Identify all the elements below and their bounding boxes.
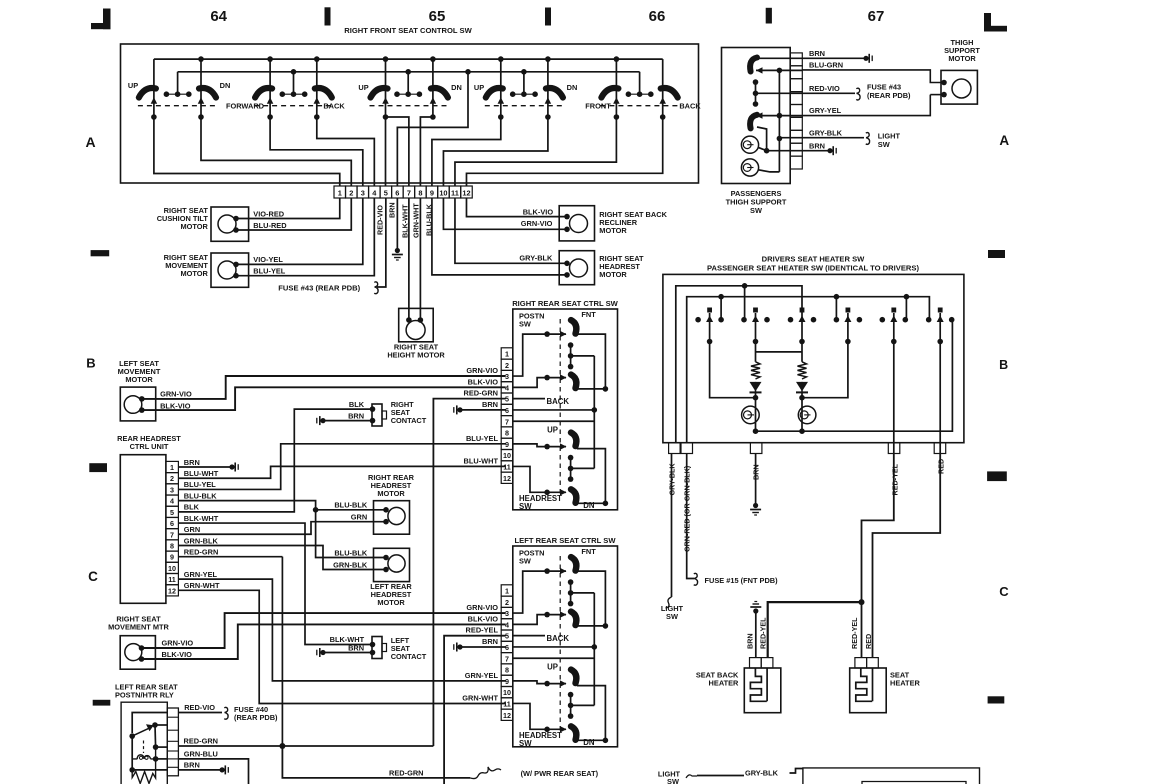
wire BLU-RED pin2 to cushion tilt motor — [236, 198, 351, 230]
svg-text:8: 8 — [505, 666, 509, 675]
wire switch to pin 12 — [466, 117, 662, 186]
svg-text:2: 2 — [505, 598, 509, 607]
svg-text:VIO-RED: VIO-RED — [253, 209, 284, 218]
svg-text:BLK: BLK — [184, 503, 200, 512]
w/ pwr rear seat squiggle — [470, 767, 501, 779]
svg-text:GRN-BLK: GRN-BLK — [184, 536, 219, 545]
svg-text:BRN: BRN — [482, 637, 498, 646]
svg-text:MOTOR: MOTOR — [599, 270, 627, 279]
switch unit 4 contact dots — [513, 93, 535, 95]
svg-text:CONTACT: CONTACT — [391, 652, 427, 661]
svg-text:8: 8 — [418, 188, 422, 197]
svg-text:1: 1 — [170, 463, 174, 472]
svg-text:2: 2 — [505, 361, 509, 370]
node lamp left bottom — [753, 428, 759, 434]
wire switch to pin 9 — [432, 117, 501, 186]
svg-text:RED-YEL: RED-YEL — [466, 626, 499, 635]
svg-text:POSTN/HTR RLY: POSTN/HTR RLY — [115, 691, 174, 700]
connector strip pins 1-12 — [334, 186, 346, 198]
svg-text:PASSENGER SEAT HEATER SW (IDEN: PASSENGER SEAT HEATER SW (IDENTICAL TO D… — [707, 264, 919, 273]
margin tick left 2 — [89, 463, 107, 472]
wire RED-VIO to fuse 43 — [802, 92, 855, 94]
switch unit 3 contact dots — [397, 93, 419, 95]
motor left rear headrest — [374, 548, 410, 581]
switch unit 5 pole dots — [614, 114, 620, 120]
left rear seat ctrl sw wire pin3 — [513, 571, 547, 613]
svg-text:FUSE #43 (REAR PDB): FUSE #43 (REAR PDB) — [278, 284, 360, 293]
light sw bottom squiggle — [686, 775, 697, 778]
svg-text:(REAR PDB): (REAR PDB) — [234, 713, 278, 722]
left rear seat ctrl sw FNT-BACK bridge — [577, 571, 605, 626]
wire RED-VIO relay to fuse 40 — [178, 712, 222, 714]
svg-text:BLK-VIO: BLK-VIO — [162, 650, 193, 659]
switch unit 3 center feed — [407, 72, 409, 94]
wire VIO-YEL pin3 to movement motor — [236, 198, 363, 264]
svg-text:67: 67 — [868, 8, 885, 25]
right rear seat ctrl sw center column — [593, 356, 595, 469]
indicator lamp left — [742, 406, 760, 424]
svg-text:7: 7 — [505, 417, 509, 426]
svg-text:GRN-VIO: GRN-VIO — [521, 219, 553, 228]
svg-text:3: 3 — [505, 372, 509, 381]
svg-text:BLK-VIO: BLK-VIO — [160, 401, 191, 410]
svg-text:BACK: BACK — [547, 634, 570, 643]
wire RED-VIO pin5 to fuse 43 — [377, 198, 386, 287]
svg-text:RED-YEL: RED-YEL — [890, 463, 899, 495]
svg-text:9: 9 — [430, 188, 434, 197]
left rear seat ctrl sw wire pin7 — [513, 657, 595, 659]
right rear seat ctrl sw center column bottom link — [571, 467, 595, 469]
switch unit 1 contact dots — [166, 93, 188, 95]
wire GRN-YEL rhc pin11 to left rear sw pin9 — [178, 579, 505, 681]
svg-text:10: 10 — [168, 564, 176, 573]
svg-text:SW: SW — [519, 557, 531, 566]
wire BRN relay to ground — [178, 769, 222, 771]
wire switch to pin 1 — [154, 117, 340, 186]
svg-text:2: 2 — [170, 474, 174, 483]
left rear seat ctrl sw FNT rocker — [571, 557, 576, 571]
wire cluster5 down to tab — [893, 342, 895, 454]
switch unit 3 left pole — [385, 59, 387, 117]
svg-text:CONTACT: CONTACT — [391, 416, 427, 425]
right rear seat ctrl sw DN rocker — [571, 489, 576, 503]
right seat contact body — [372, 404, 382, 426]
relay coil — [132, 755, 155, 759]
wire bus 1 — [154, 58, 663, 60]
motor right seat headrest — [559, 251, 594, 285]
svg-text:UP: UP — [474, 83, 484, 92]
svg-text:DRIVERS SEAT HEATER SW: DRIVERS SEAT HEATER SW — [762, 255, 865, 264]
heater sw outer box — [663, 274, 964, 442]
right rear seat ctrl sw FNT-BACK bridge — [577, 334, 605, 389]
svg-text:SW: SW — [750, 206, 762, 215]
left rear seat ctrl sw wire pin4 — [513, 615, 547, 625]
switch unit 5 right arrow — [659, 97, 666, 104]
svg-text:9: 9 — [170, 553, 174, 562]
svg-text:RIGHT REAR SEAT CTRL SW: RIGHT REAR SEAT CTRL SW — [512, 299, 618, 308]
svg-text:RED-VIO: RED-VIO — [184, 703, 215, 712]
right rear seat ctrl sw UP-DN bridge — [576, 449, 605, 504]
svg-text:GRY-BLK: GRY-BLK — [745, 768, 779, 777]
svg-text:11: 11 — [503, 700, 511, 709]
svg-text:BLU-WHT: BLU-WHT — [464, 456, 499, 465]
svg-text:RED: RED — [864, 634, 873, 649]
svg-text:A: A — [85, 134, 95, 150]
heater sw contact cluster 1 — [707, 308, 712, 313]
switch unit 4 left rocker — [486, 88, 503, 97]
svg-text:10: 10 — [439, 188, 447, 197]
wire BLK-WHT rhc pin6 to left seat contact — [178, 523, 372, 644]
right rear seat ctrl sw wire pin5 stub — [513, 398, 545, 400]
motor right seat cushion tilt — [211, 207, 249, 241]
svg-text:GRN-BLU: GRN-BLU — [184, 750, 218, 759]
svg-text:BRN: BRN — [184, 458, 200, 467]
svg-text:SW: SW — [667, 777, 679, 784]
svg-text:1: 1 — [505, 350, 509, 359]
svg-text:GRN-BLK: GRN-BLK — [333, 560, 368, 569]
wire GRY-BLK bottom — [697, 775, 744, 777]
svg-text:GRN-VIO: GRN-VIO — [162, 639, 194, 648]
ground heater BRN — [753, 503, 758, 508]
right rear seat ctrl sw wire pin6 — [513, 409, 595, 411]
svg-text:BLU-YEL: BLU-YEL — [253, 267, 286, 276]
node RED-YEL junction — [859, 599, 865, 605]
node rail B tap — [834, 294, 840, 300]
svg-text:BLU-WHT: BLU-WHT — [184, 469, 219, 478]
svg-text:GRN-VIO: GRN-VIO — [160, 390, 192, 399]
svg-text:64: 64 — [210, 8, 227, 25]
svg-text:MOTOR: MOTOR — [948, 54, 976, 63]
wire GRN-BLU relay — [178, 759, 248, 784]
ground seat back heater BRN — [754, 601, 757, 603]
wire switch to pin 7 — [386, 117, 409, 186]
left rear seat ctrl sw FNT arm — [544, 568, 550, 574]
heater sw tab GRY-BLK — [669, 443, 681, 454]
left rear seat ctrl sw wire pin6 — [513, 646, 595, 648]
node rail A tap — [742, 283, 748, 289]
motor right seat movement mtr — [120, 636, 155, 670]
wire RED-GRN rhc pin9 down — [178, 556, 282, 558]
wire switch to pin 4 — [317, 117, 375, 186]
seat heater — [855, 658, 867, 668]
switch unit 3 left rocker — [371, 88, 388, 97]
svg-text:UP: UP — [547, 663, 558, 672]
indicator lamp right — [798, 406, 816, 424]
svg-text:BRN: BRN — [809, 49, 825, 58]
fuse 40 squiggle — [224, 707, 228, 719]
svg-text:BLU-YEL: BLU-YEL — [184, 480, 217, 489]
svg-text:1: 1 — [338, 188, 342, 197]
light sw squiggle — [866, 133, 870, 145]
bottom right box — [803, 768, 980, 784]
thigh sw rocker 1 arm — [756, 69, 802, 71]
switch unit 1 pole dots — [151, 114, 157, 120]
heater sw bottom rail — [756, 320, 953, 432]
relay connector strip — [167, 708, 178, 776]
svg-text:(REAR PDB): (REAR PDB) — [867, 91, 911, 100]
svg-text:UP: UP — [547, 426, 558, 435]
svg-text:6: 6 — [170, 519, 174, 528]
ground left sw pin6 — [457, 644, 462, 649]
wire GRN rhc pin7 to right rear headrest motor — [178, 522, 386, 535]
thigh sw rocker 2 arm — [756, 115, 802, 117]
switch unit 2 left pole — [269, 59, 271, 117]
svg-text:RED-GRN: RED-GRN — [389, 769, 424, 778]
left rear seat ctrl sw center column bottom link — [571, 704, 595, 706]
svg-text:5: 5 — [170, 508, 174, 517]
right rear seat ctrl sw wire pin4 — [513, 378, 547, 388]
switch unit 4 right pole — [547, 59, 549, 117]
left rear seat ctrl sw BACK rocker — [571, 612, 576, 626]
svg-text:GRN: GRN — [351, 513, 367, 522]
wire lamp1 to BRN tab — [758, 147, 767, 150]
svg-text:FNT: FNT — [581, 547, 596, 556]
wire BRN ground left sw pin6 — [460, 646, 506, 648]
right rear seat ctrl sw dashed line — [559, 319, 561, 495]
svg-text:10: 10 — [503, 451, 511, 460]
wire BLK-VIO to right rear sw pin4 — [142, 387, 506, 410]
svg-text:HEIGHT MOTOR: HEIGHT MOTOR — [387, 351, 445, 360]
node BLU-BLK junction — [313, 507, 319, 513]
svg-text:SW: SW — [519, 739, 532, 748]
corner mark top-left — [103, 9, 111, 30]
svg-text:GRN-YEL: GRN-YEL — [465, 671, 499, 680]
svg-text:LEFT REAR SEAT CTRL SW: LEFT REAR SEAT CTRL SW — [515, 536, 617, 545]
left rear seat ctrl sw wire pin11 — [513, 703, 547, 729]
svg-text:A: A — [999, 133, 1009, 148]
svg-text:9: 9 — [505, 440, 509, 449]
wire BRN 2 to ground — [802, 150, 830, 152]
svg-text:BLU-BLK: BLU-BLK — [425, 203, 434, 236]
node rail B tap — [718, 294, 724, 300]
switch unit 4 center feed — [523, 72, 525, 94]
ground left seat contact — [320, 650, 325, 655]
switch unit 5 left rocker — [601, 88, 618, 97]
wire GRY-BLK to light sw — [802, 137, 864, 139]
svg-text:RED-VIO: RED-VIO — [376, 205, 385, 235]
svg-text:BLK-VIO: BLK-VIO — [468, 377, 499, 386]
heater sw contact cluster 4 — [846, 308, 851, 313]
svg-text:B: B — [999, 358, 1008, 372]
relay tap node — [129, 767, 135, 773]
left rear seat ctrl sw BACK arm — [544, 612, 550, 618]
switch unit 1 left rocker — [139, 88, 156, 97]
svg-text:GRY-YEL: GRY-YEL — [809, 106, 842, 115]
wire RED-GRN relay — [178, 745, 433, 747]
relay box — [121, 702, 167, 784]
margin tick left 3 — [93, 700, 111, 706]
wire GRN-WHT pin8 to height motor — [419, 198, 421, 320]
motor left seat movement — [120, 387, 155, 421]
wire rail A tap down — [744, 286, 746, 320]
left rear seat ctrl sw center column — [593, 593, 595, 706]
ground relay BRN — [220, 767, 225, 772]
margin tick right 1 — [988, 250, 1005, 258]
svg-text:DN: DN — [567, 83, 578, 92]
switch unit 2 dashed travel line — [254, 105, 332, 107]
svg-text:4: 4 — [170, 497, 174, 506]
switch passengers thigh support box — [722, 48, 791, 184]
switch unit 3 dashed travel line — [370, 105, 448, 107]
wire VIO-RED pin1 to cushion tilt motor — [236, 198, 340, 219]
ground right seat contact — [320, 418, 325, 423]
svg-text:GRY-BLK: GRY-BLK — [809, 128, 843, 137]
right rear seat ctrl sw UP arm — [544, 444, 550, 450]
wire BLU-BLK branch to left rear headrest motor — [316, 510, 386, 558]
right rear seat ctrl sw DN arm — [544, 490, 550, 496]
switch unit 5 right rocker — [661, 88, 678, 97]
svg-text:MOTOR: MOTOR — [125, 375, 153, 384]
wire GRY-BLK to box — [790, 769, 803, 774]
left rear seat ctrl sw contact chain upper — [570, 582, 572, 604]
seat back heater — [750, 658, 762, 668]
wire GRN-WHT rhc pin12 to left rear sw pin11 — [178, 590, 505, 703]
wire bus 2 — [178, 71, 640, 73]
svg-text:BRN: BRN — [388, 202, 397, 218]
left rear seat ctrl sw UP-DN bridge — [576, 686, 605, 741]
svg-text:BRN: BRN — [809, 141, 825, 150]
right rear seat ctrl sw contact chain upper — [570, 345, 572, 367]
svg-text:RED-YEL: RED-YEL — [850, 617, 859, 649]
ground thigh BRN 2 — [827, 148, 832, 153]
svg-text:MOTOR: MOTOR — [181, 269, 209, 278]
svg-text:SW: SW — [666, 612, 678, 621]
resistor heater left — [751, 362, 760, 379]
motor right seat height — [399, 308, 434, 341]
switch unit 2 right arrow — [314, 97, 321, 104]
switch unit 5 center feed — [639, 72, 641, 94]
thigh sw contact chain — [755, 82, 757, 104]
wire cluster1 to diode left — [710, 342, 756, 398]
diode heater right — [801, 382, 803, 393]
left rear seat ctrl sw DN rocker — [571, 726, 576, 740]
svg-text:RIGHT FRONT SEAT CONTROL SW: RIGHT FRONT SEAT CONTROL SW — [344, 26, 472, 35]
thigh support connector tabs — [790, 53, 802, 66]
relay actuator dashes — [143, 741, 145, 754]
switch unit 5 left arrow — [613, 97, 620, 104]
right rear seat ctrl sw wire pin3 — [513, 334, 547, 376]
wire lamp2 to node column — [758, 170, 779, 172]
svg-text:BLU-RED: BLU-RED — [253, 221, 287, 230]
svg-text:DN: DN — [583, 738, 595, 747]
svg-text:2: 2 — [349, 188, 353, 197]
svg-text:4: 4 — [505, 383, 509, 392]
right rear seat ctrl sw wire pin11 — [513, 466, 547, 492]
svg-text:BLK-WHT: BLK-WHT — [184, 514, 219, 523]
wire GRN-VIO pin10 to recliner motor — [443, 198, 567, 229]
left rear seat ctrl sw wire pin9 — [513, 681, 547, 684]
wire switch to pin 6 — [397, 72, 468, 186]
switch unit 4 right rocker — [546, 88, 563, 97]
node lamp right bottom — [799, 428, 805, 434]
heater sw rail A — [676, 286, 802, 443]
wire GRY-BLK pin11 to headrest motor — [455, 198, 567, 263]
right rear seat ctrl sw box — [513, 309, 618, 510]
thigh sw BRN feed to rocker 1 top — [758, 57, 802, 59]
fuse #43 squiggle (rear pdb) — [374, 282, 378, 294]
relay resistor — [132, 747, 155, 783]
motor right seat back recliner — [559, 206, 594, 241]
wire BLU-BLK rhc pin4 junction — [178, 501, 386, 510]
corner mark top-right — [984, 13, 991, 32]
wire BRN to seat back heater — [755, 611, 757, 658]
svg-text:FRONT: FRONT — [585, 102, 611, 111]
switch box outline — [121, 44, 699, 183]
svg-text:7: 7 — [407, 188, 411, 197]
svg-text:SW: SW — [519, 320, 531, 329]
fuse 15 squiggle — [694, 573, 698, 585]
wire chain to RED-VIO tab — [756, 92, 803, 94]
registration tick top 1 — [325, 7, 331, 25]
svg-text:BRN: BRN — [482, 400, 498, 409]
svg-text:FUSE #15 (FNT PDB): FUSE #15 (FNT PDB) — [705, 576, 779, 585]
motor thigh support — [941, 70, 977, 104]
node RED-GRN junction — [279, 743, 285, 749]
svg-text:GRN-VIO: GRN-VIO — [466, 603, 498, 612]
switch unit 2 left arrow — [267, 97, 274, 104]
wire GRY-BLK tab stub — [779, 137, 802, 139]
wire RED-GRN to right sw pin5 — [433, 399, 505, 746]
svg-text:GRN-VIO: GRN-VIO — [466, 366, 498, 375]
heater sw tab BRN — [750, 443, 762, 454]
wire BLK-VIO pin12 to recliner motor — [466, 198, 567, 217]
svg-text:DN: DN — [220, 81, 231, 90]
motor right seat movement — [211, 253, 249, 287]
svg-text:BRN: BRN — [745, 633, 754, 649]
svg-text:6: 6 — [395, 188, 399, 197]
right rear seat ctrl sw BACK arm — [544, 375, 550, 381]
svg-text:65: 65 — [429, 8, 446, 25]
svg-text:HEATER: HEATER — [709, 679, 739, 688]
registration tick top 3 — [766, 8, 772, 24]
svg-text:SW: SW — [878, 140, 890, 149]
svg-text:12: 12 — [462, 188, 470, 197]
wire RED-GRN bottom — [282, 746, 470, 778]
light sw squiggle 2 — [666, 597, 672, 608]
svg-text:BLU-BLK: BLU-BLK — [334, 501, 368, 510]
margin tick right 3 — [988, 696, 1005, 703]
wire GRN-RED drop — [687, 454, 694, 579]
svg-text:C: C — [88, 569, 98, 584]
switch unit 4 dashed travel line — [485, 105, 563, 107]
relay switch — [129, 733, 135, 739]
svg-text:BLU-GRN: BLU-GRN — [809, 61, 843, 70]
svg-text:BRN: BRN — [184, 761, 200, 770]
svg-text:7: 7 — [505, 654, 509, 663]
ground below pin 6 — [395, 248, 400, 253]
switch unit 3 pole dots — [383, 114, 389, 120]
node diode left out — [753, 395, 759, 401]
svg-text:DN: DN — [451, 83, 462, 92]
svg-text:BACK: BACK — [547, 397, 570, 406]
svg-text:VIO-YEL: VIO-YEL — [253, 255, 283, 264]
switch unit 2 pole dots — [267, 114, 273, 120]
wire BLK-WHT pin7 to height motor — [408, 198, 410, 320]
svg-text:7: 7 — [170, 530, 174, 539]
switch unit 3 right pole — [432, 59, 434, 117]
switch unit 1 left arrow — [151, 97, 158, 104]
wire switch to pin 10 — [443, 117, 547, 186]
svg-text:11: 11 — [503, 463, 511, 472]
wire switch to pin 8 — [420, 117, 433, 186]
wire BLU-YEL rhc pin3 to right rear sw pin9 — [178, 444, 505, 490]
svg-text:UP: UP — [358, 83, 368, 92]
svg-text:MOTOR: MOTOR — [599, 226, 627, 235]
svg-text:GRN-WHT: GRN-WHT — [184, 581, 220, 590]
svg-text:MOTOR: MOTOR — [377, 598, 405, 607]
thigh sw rocker 2 tail wire — [757, 127, 767, 151]
svg-text:GRN-RED (OR GRN-BLK): GRN-RED (OR GRN-BLK) — [683, 465, 692, 552]
